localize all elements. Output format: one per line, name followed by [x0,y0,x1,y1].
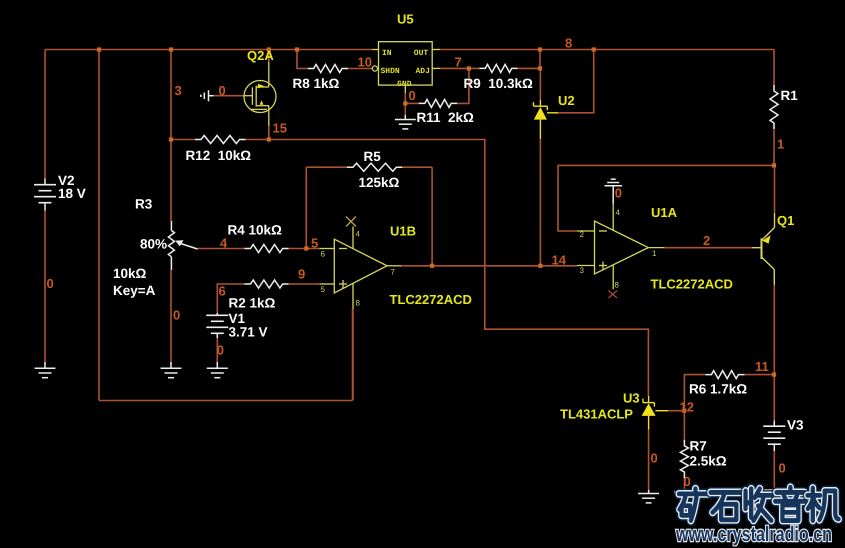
svg-text:6: 6 [321,250,326,259]
ground stem U3 [648,490,650,494]
svg-text:12: 12 [680,400,694,415]
wire node 6 R2 left to V1 [217,284,244,315]
svg-text:U1B: U1B [390,224,416,239]
svg-text:80%: 80% [140,237,167,252]
svg-text:R4 10kΩ: R4 10kΩ [228,223,283,238]
svg-text:Q2A: Q2A [247,48,274,63]
svg-text:0: 0 [217,343,224,358]
wire left loop vertical x99 [98,50,100,401]
svg-text:R1: R1 [781,88,799,103]
svg-text:1: 1 [652,249,657,258]
U1A pin8 no-connect X [609,291,618,299]
svg-text:7: 7 [455,55,462,70]
wire U3 anode down [648,430,650,490]
wire V2 top lead [44,50,46,179]
wire Q2 source down [268,126,270,140]
junction node14 R5 [430,264,434,268]
junction node3 R8 [295,47,299,51]
svg-text:10kΩ: 10kΩ [113,266,147,281]
svg-text:9: 9 [298,267,305,282]
shunt reference U3 [643,396,668,430]
svg-text:R6 1.7kΩ: R6 1.7kΩ [689,382,747,397]
svg-text:3: 3 [580,266,585,275]
resistor R12 [195,136,246,144]
wire node 8 OUT pin to rail right [440,49,774,51]
wire U2 cathode up [539,68,541,100]
V3 stem top [773,421,775,427]
battery V3 [763,426,785,444]
wire R9 right [518,67,540,69]
op-amp U1B [319,227,401,310]
junction node5 R5 [304,246,308,250]
wire node 7 ADJ to R9 [440,67,479,69]
resistor R5 [347,163,403,171]
ground U5 [395,120,416,129]
wire R12 left [171,139,195,141]
svg-text:2: 2 [703,233,710,248]
svg-text:Q1: Q1 [777,213,794,228]
ground V3 [764,490,785,499]
resistor R1 [770,85,778,129]
resistor R6 [705,371,744,379]
svg-text:8: 8 [356,299,361,308]
svg-text:2: 2 [580,230,585,239]
junction node8 x540 [538,47,542,51]
wire R12 right to Q2 source [246,139,269,141]
svg-text:10: 10 [358,55,372,70]
svg-text:8: 8 [565,36,572,51]
wire R1 top lead [773,50,775,86]
svg-text:0: 0 [409,88,416,103]
svg-text:14: 14 [552,253,567,268]
junction node3 R12 [169,137,173,141]
svg-text:0: 0 [615,185,622,200]
wire R3 wiper to R4 [197,248,245,250]
junction node15 Q2 source [267,137,271,141]
svg-text:15: 15 [273,121,287,136]
svg-text:U2: U2 [558,93,575,108]
wire U5 ground stem upper [404,103,406,114]
U1B pin4 no-connect X [346,217,356,227]
junction node3 Q2 drain [267,47,271,51]
svg-text:125kΩ: 125kΩ [359,175,400,190]
wire V3 bottom to ground [773,451,775,490]
svg-text:3: 3 [175,83,182,98]
svg-text:11: 11 [755,359,769,374]
ground R7 [674,492,695,501]
wire R3 top lead [170,50,172,222]
ground stem V2 [44,362,46,368]
wire top rail node 3 [45,49,373,51]
junction node1 Q1 [772,163,776,167]
resistor R2 [245,280,289,288]
wire node 9 R2 right [289,283,320,285]
svg-text:4: 4 [356,230,361,239]
ground U1A pin4 [605,179,623,204]
svg-text:R12 10kΩ: R12 10kΩ [186,148,252,163]
svg-text:0: 0 [47,276,54,291]
wire R6 left corner [684,375,705,411]
wire U2 anode down node 14 [539,139,541,266]
svg-text:TLC2272ACD: TLC2272ACD [390,292,472,307]
battery V1 [206,315,228,333]
wire R1 bottom lead [773,129,775,165]
wire node 1 R1 to U1A [558,165,774,231]
svg-text:R2 1kΩ: R2 1kΩ [229,296,276,311]
svg-text:3.71 V: 3.71 V [229,324,268,339]
svg-text:0: 0 [684,474,691,489]
wire R7 bottom to ground [683,478,685,492]
watermark ideographs [679,487,839,520]
svg-text:8: 8 [615,281,620,290]
svg-text:OUT: OUT [414,49,429,58]
wire R5 right vertical [431,167,433,266]
resistor R9 [479,64,517,72]
wire V1 bottom to ground [216,336,218,362]
V2 stem bottom [44,203,46,211]
ground Q2 gate [201,90,214,101]
svg-text:U3: U3 [623,390,640,405]
svg-text:SHDN: SHDN [381,67,400,76]
svg-text:ADJ: ADJ [416,67,430,76]
wire U1B pin8 to bottom rail [352,309,354,401]
V2 stem top [44,179,46,185]
svg-text:U5: U5 [397,11,414,26]
svg-text:0: 0 [219,83,226,98]
svg-text:5: 5 [311,236,318,251]
svg-text:R5: R5 [364,149,382,164]
wire node 2 U1A out to Q1 [664,247,752,249]
junction node7 U2 [538,66,542,70]
wire rail to R9 node [539,50,541,69]
svg-text:www.crystalradio.cn: www.crystalradio.cn [675,523,832,546]
resistor R11 [419,99,457,107]
V1 stem bottom [216,333,218,338]
junction node3 x99 [97,47,101,51]
wire R5 top right [402,166,432,168]
junction node0 U5 gnd [403,101,407,105]
wire R7 top lead [683,411,685,440]
svg-text:IN: IN [382,49,392,58]
junction node11 V3 [772,373,776,377]
svg-text:0: 0 [651,451,658,466]
svg-text:7: 7 [391,268,396,277]
transistor Q1 [752,213,775,285]
wire V3 top lead [773,375,775,421]
ground V2 [35,368,56,377]
wire R5 left vertical [305,167,307,248]
junction node8 U2 ref [592,47,596,51]
svg-text:1: 1 [777,137,784,152]
junction node3 x171 [169,47,173,51]
wire GND node to R11 [405,102,419,104]
wire Q1 collector down [773,285,775,374]
wire Q1 emitter upper [774,165,776,213]
wire Q2 drain to rail [268,50,270,63]
regulator U5 box [372,42,440,93]
svg-text:TLC2272ACD: TLC2272ACD [651,276,733,291]
wire U2 ref to rail [558,50,594,113]
junction node7 R11 [467,66,471,70]
wire R5 top left [306,166,347,168]
op-amp U1A [577,204,664,289]
resistor R8 [308,65,348,73]
wire Q2 gate [214,95,245,97]
ground R3 [161,368,182,377]
V3 stem bottom [773,444,775,451]
battery V2 [34,185,56,203]
ground stem U5 [404,115,406,120]
V1 stem top [216,313,218,315]
shunt reference U2 [534,100,559,139]
svg-text:R11 2kΩ: R11 2kΩ [417,110,475,125]
wire U1B output node 14 [401,265,577,267]
wire R8 takeoff [297,50,308,69]
wire U1B pin8 lower [352,309,354,401]
svg-text:0: 0 [779,461,786,476]
svg-text:6: 6 [219,283,226,298]
svg-text:4: 4 [616,208,621,217]
svg-text:R9 10.3kΩ: R9 10.3kΩ [464,76,534,91]
junction node12 R7 [682,409,686,413]
svg-text:Key=A: Key=A [113,283,156,298]
svg-text:R3: R3 [135,197,153,212]
resistor R4 [245,245,289,253]
ground U3 [638,494,659,503]
wire V2 bottom to ground [44,211,46,363]
wire node 11 R6 right [744,374,774,376]
wire R3 bottom to ground [170,270,172,362]
svg-text:2.5kΩ: 2.5kΩ [690,453,727,468]
potentiometer R3 [168,221,197,270]
svg-text:4: 4 [220,236,228,251]
transistor Q2A [244,62,276,126]
svg-text:U1A: U1A [651,205,678,220]
wire R8 to SHDN [348,68,372,70]
resistor R7 [680,440,688,478]
svg-text:18 V: 18 V [58,186,86,201]
ground stem V1 [216,362,218,368]
junction node14 U2 [538,264,542,268]
wire U5 GND down [404,93,406,103]
svg-text:R7: R7 [690,439,707,454]
wire node 15 to U3 [269,140,649,397]
svg-text:0: 0 [173,308,180,323]
wire node 4/5 R4 to U1B [289,248,320,250]
wire node 12 U3 ref [668,410,684,412]
svg-text:V3: V3 [787,418,804,433]
svg-text:5: 5 [321,285,326,294]
wire bottom rail [99,400,353,402]
wire R11 right to ADJ node [457,68,469,103]
ground stem R3 [170,362,172,368]
ground V1 [207,368,228,377]
svg-text:R8 1kΩ: R8 1kΩ [293,76,340,91]
svg-text:TL431ACLP: TL431ACLP [560,407,633,422]
